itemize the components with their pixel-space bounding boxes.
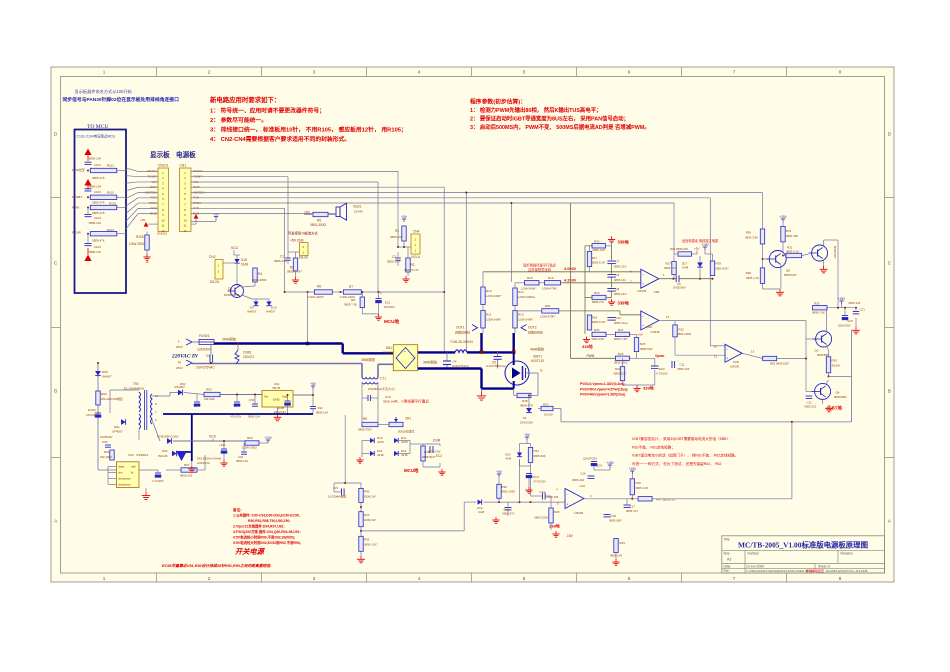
wire CN1 pin9 run — [191, 213, 331, 215]
svg-text:C18: C18 — [611, 514, 617, 518]
wire L to fuse — [192, 341, 199, 343]
svg-text:8550/EBC: 8550/EBC — [834, 395, 847, 399]
svg-text:IGBT地: IGBT地 — [827, 405, 842, 412]
capacitor EC90 — [95, 412, 101, 414]
wire CN101-box link 3 — [126, 182, 138, 183]
svg-text:+5V: +5V — [213, 212, 220, 216]
svg-text:4: 4 — [418, 576, 421, 581]
svg-text:D94: D94 — [162, 449, 168, 453]
wire sync line B — [561, 282, 641, 284]
svg-text:U2D: U2D — [733, 360, 740, 364]
svg-text:EXAMPLES\SPT101~112.DDB: EXAMPLES\SPT101~112.DDB — [826, 569, 868, 573]
svg-text:0805-221*: 0805-221* — [614, 292, 628, 296]
op-amp U2A — [565, 489, 584, 509]
svg-text:1: 1 — [103, 70, 106, 75]
svg-text:BYR20/BYV26C: BYR20/BYV26C — [157, 435, 180, 439]
svg-text:0805-300Ω: 0805-300Ω — [310, 223, 326, 227]
wire CN101 pin 8 — [138, 207, 158, 209]
wire CN101-box link 8 — [126, 208, 138, 221]
resistor R32 — [786, 253, 802, 257]
capacitor EC91 — [194, 401, 200, 403]
svg-text:~: ~ — [396, 357, 398, 361]
svg-text:0805-47K: 0805-47K — [92, 201, 105, 205]
svg-text:vdd: vdd — [131, 465, 136, 469]
svg-text:U90: U90 — [128, 453, 134, 457]
capacitor EC93 — [221, 448, 227, 450]
svg-text:1/2W-240K*: 1/2W-240K* — [486, 294, 502, 298]
thick stub OUT2 — [513, 333, 515, 352]
wire EC1 ground — [378, 303, 380, 314]
capacitor EC3 — [526, 473, 532, 475]
connector CN4 — [411, 234, 420, 254]
svg-text:8050/SOT: 8050/SOT — [833, 246, 837, 259]
transistor Q2 top — [812, 245, 828, 261]
svg-text:2W-100K: 2W-100K — [100, 455, 112, 459]
resistor R25 — [634, 338, 638, 352]
svg-text:R8: R8 — [351, 298, 355, 302]
svg-text:R1: R1 — [395, 229, 399, 233]
svg-text:0805-51K*: 0805-51K* — [422, 455, 437, 459]
capacitor C93 — [252, 403, 258, 405]
svg-text:R9: R9 — [363, 417, 367, 421]
wire diodes top — [252, 298, 269, 300]
svg-text:10/1W: 10/1W — [544, 413, 553, 417]
thick wire DB1 output — [418, 351, 455, 353]
resistor R103 — [90, 205, 117, 209]
svg-text:0805-104: 0805-104 — [572, 478, 584, 482]
svg-text:EC90: EC90 — [88, 408, 96, 412]
wire CN101 pin 2 — [138, 176, 158, 178]
+18V drive node — [841, 301, 843, 304]
wire CN1 pin2 run — [191, 176, 288, 178]
wire cap rail — [611, 246, 613, 260]
svg-text:R43: R43 — [620, 541, 626, 545]
wire BUZ1 down — [331, 213, 336, 215]
capacitor C4 filter — [443, 360, 451, 362]
svg-text:R16: R16 — [548, 276, 554, 280]
wire T90 primary — [110, 389, 139, 391]
+10V supply label — [259, 442, 268, 444]
svg-text:drn: drn — [119, 471, 123, 475]
svg-text:R2: R2 — [411, 263, 415, 267]
wire IGBTEN down to R29 — [762, 193, 764, 229]
svg-text:0805-220K: 0805-220K — [534, 516, 548, 520]
capacitor EC96 — [285, 400, 291, 402]
resistor R47 — [638, 497, 652, 501]
wire 7805 out — [293, 394, 313, 396]
wire CN3 bottom — [288, 251, 300, 253]
wires CN4 — [403, 241, 405, 247]
svg-text:C101: C101 — [94, 163, 101, 167]
capacitor C8 — [607, 288, 616, 290]
svg-text:同步信号与PAN30针脚02位在显示板处用排线角连接口: 同步信号与PAN30针脚02位在显示板处用排线角连接口 — [63, 96, 180, 103]
resistor R43 — [614, 539, 618, 553]
svg-text:100K/1W: 100K/1W — [364, 518, 376, 522]
capacitor C7 — [607, 260, 616, 262]
svg-text:+: + — [642, 324, 644, 328]
ground U90 — [145, 488, 147, 492]
connector CN101 — [158, 168, 169, 232]
svg-text:R、C两线要平行靠近: R、C两线要平行靠近 — [395, 399, 429, 404]
svg-text:820K/1W: 820K/1W — [364, 495, 376, 499]
svg-text:0805-114: 0805-114 — [664, 266, 676, 270]
svg-text:+: + — [642, 282, 644, 286]
wire D15 to Q1 — [236, 264, 238, 286]
svg-text:2: 2 — [208, 70, 211, 75]
svg-text:C7: C7 — [616, 260, 620, 264]
wire R105 top — [146, 232, 148, 236]
svg-text:7: 7 — [733, 70, 736, 75]
ground diode bridge — [361, 454, 363, 458]
svg-text:4148: 4148 — [505, 457, 512, 461]
svg-text:2： 要保证启动时IGBT导通宽度为8US左右， 采用PAN: 2： 要保证启动时IGBT导通宽度为8US左右， 采用PAN信号启动； — [470, 115, 629, 123]
svg-text:10/250#W或插: 10/250#W或插 — [328, 495, 347, 499]
wire R103 — [117, 207, 126, 209]
svg-text:Q1: Q1 — [228, 287, 232, 291]
svg-text:R38: R38 — [522, 399, 528, 403]
svg-text:R41: R41 — [364, 513, 370, 517]
svg-text:4148: 4148 — [377, 440, 384, 444]
svg-text:5X0.5W(Vd≈0.5A4): 5X0.5W(Vd≈0.5A4) — [197, 457, 221, 461]
buzzer BUZ1 — [336, 207, 340, 217]
capacitor C17 — [624, 504, 631, 506]
svg-text:R14: R14 — [518, 290, 524, 294]
wire U2A out — [585, 498, 639, 500]
svg-text:R42: R42 — [594, 240, 600, 244]
svg-text:13-Jun-2005: 13-Jun-2005 — [746, 565, 764, 569]
OUT1 terminal — [472, 325, 478, 331]
svg-text:30/1W: 30/1W — [832, 364, 841, 368]
svg-text:R45: R45 — [554, 510, 560, 514]
svg-text:0805-4.7K: 0805-4.7K — [520, 404, 533, 408]
resistor R12 — [481, 287, 485, 305]
svg-text:8050/SOT: 8050/SOT — [784, 273, 797, 277]
svg-text:3MM铜铂: 3MM铜铂 — [423, 360, 438, 365]
svg-text:R47 0805-5.1K: R47 0805-5.1K — [656, 497, 676, 501]
resistor R28 — [710, 261, 714, 276]
svg-text:+5V: +5V — [401, 215, 408, 219]
svg-text:LM339: LM339 — [637, 289, 647, 293]
ground R105 — [146, 250, 148, 254]
svg-text:0805-104: 0805-104 — [236, 459, 248, 463]
svg-text:+18V: +18V — [606, 461, 614, 465]
capacitor C94 — [241, 451, 247, 453]
power arrow group2 — [84, 179, 91, 186]
svg-text:339地: 339地 — [643, 385, 654, 391]
svg-text:8: 8 — [839, 576, 842, 581]
resistor R20 — [592, 332, 606, 336]
svg-text:UF4007: UF4007 — [112, 430, 123, 434]
svg-text:R97: R97 — [184, 463, 190, 467]
svg-text:R15: R15 — [527, 276, 533, 280]
svg-text:0805-104: 0805-104 — [316, 411, 328, 415]
wires U90 left pins — [108, 466, 117, 468]
resistor R19 — [592, 295, 606, 299]
capacitor C91 — [310, 406, 316, 408]
svg-text:FCUR: FCUR — [72, 230, 81, 234]
svg-text:1:公共器件 :C90-C93,D90-D93,EC90-E: 1:公共器件 :C90-C93,D90-D93,EC90-EC95, — [233, 513, 300, 518]
svg-text:C104: C104 — [94, 245, 101, 249]
ground EC3 — [528, 478, 530, 487]
svg-text:B: B — [54, 389, 57, 394]
svg-text:0805-471: 0805-471 — [626, 509, 638, 513]
wire CT1 secondary down — [361, 383, 363, 397]
svg-text:8: 8 — [839, 70, 842, 75]
ground 339 mid — [611, 299, 613, 302]
svg-text:Q4: Q4 — [836, 391, 840, 395]
wire U2B out — [659, 278, 676, 280]
resistor R31 — [781, 226, 785, 242]
wire CN101 pin 3 — [138, 181, 158, 183]
svg-text:11: 11 — [161, 224, 164, 228]
svg-text:0805-104: 0805-104 — [383, 400, 396, 404]
wire PWM from bus — [570, 203, 572, 358]
svg-text:EC4: EC4 — [597, 464, 603, 468]
svg-text:R18: R18 — [592, 316, 598, 320]
resistor R45 — [549, 508, 553, 523]
resistor R62 — [763, 356, 777, 360]
wire sync line A — [483, 271, 641, 273]
diode D14 — [370, 451, 374, 456]
wire R102 — [117, 196, 126, 198]
svg-text:0805-30K: 0805-30K — [534, 454, 546, 458]
svg-text:-18V: -18V — [566, 534, 574, 538]
wire sync tap to mains — [307, 292, 309, 344]
wire CN1 pin5 run — [191, 192, 763, 194]
thick rail coil to OUT1 — [467, 351, 482, 353]
wire CN1 pin6 run — [191, 197, 710, 199]
svg-text:LM431/3A: LM431/3A — [197, 461, 210, 465]
resistor R44 — [528, 447, 532, 462]
svg-text:C11: C11 — [680, 363, 685, 367]
wire CN1 pin1 run — [191, 170, 398, 172]
wire CT1 to R9 — [361, 410, 363, 425]
svg-text:2UF/275VAC: 2UF/275VAC — [196, 366, 215, 370]
svg-text:4148: 4148 — [682, 266, 689, 270]
resistor R15 — [525, 281, 540, 285]
diode D92 snubber — [178, 390, 183, 396]
svg-text:1/2W-240K*: 1/2W-240K* — [518, 318, 534, 322]
wire TMAIN down to CN4 — [397, 171, 399, 247]
svg-text:Date:: Date: — [724, 565, 732, 569]
svg-text:C103: C103 — [94, 216, 101, 220]
resistor R104 — [90, 232, 117, 236]
inner frame — [61, 77, 885, 574]
wire R29 to Q8 — [762, 244, 764, 268]
svg-text:L: L — [178, 340, 180, 344]
svg-text:Sheet of: Sheet of — [818, 565, 830, 569]
svg-text:CN101: CN101 — [158, 164, 168, 168]
svg-text:0805-101: 0805-101 — [614, 278, 626, 282]
resistor R35 — [826, 357, 830, 373]
transistor Q1 — [231, 285, 244, 298]
wire PWM down to R26 node — [673, 203, 675, 254]
svg-text:R37: R37 — [543, 403, 549, 407]
title block — [722, 536, 885, 573]
svg-text:RS2006: RS2006 — [383, 351, 394, 355]
svg-text:GND: GND — [273, 398, 281, 402]
svg-text:1/2W-240K*: 1/2W-240K* — [521, 287, 537, 291]
resistor R41 — [359, 512, 363, 527]
svg-text:0805-221*: 0805-221* — [614, 265, 628, 269]
wire PWM down to sync node — [510, 203, 512, 282]
resistor R37 — [541, 406, 553, 410]
svg-text:220U/25V: 220U/25V — [838, 324, 851, 328]
resistor R105 — [145, 235, 149, 250]
svg-text:4148: 4148 — [377, 453, 384, 457]
svg-text:+5V: +5V — [304, 211, 311, 215]
svg-text:R7: R7 — [349, 285, 353, 289]
wire CN1 pin4 run — [191, 186, 444, 188]
resistor R5 — [313, 212, 328, 216]
svg-text:0805-106: 0805-106 — [274, 259, 287, 263]
wire vertical mains sense stub — [465, 193, 467, 352]
wires CUR cluster — [410, 443, 423, 445]
svg-text:3:FSDQ200方案 器件:C94,Q90,R94-96,: 3:FSDQ200方案 器件:C94,Q90,R94-96,U91; — [233, 529, 301, 534]
+5V supply label — [312, 386, 314, 389]
resistor R101 — [90, 168, 117, 172]
transistor Q8 — [769, 251, 786, 268]
svg-text:47UF/25V: 47UF/25V — [534, 480, 547, 484]
svg-text:0805-27K: 0805-27K — [592, 300, 604, 304]
wire CN101 pin 9 — [138, 213, 158, 215]
svg-text:47U/25V: 47U/25V — [230, 415, 241, 419]
+5V at CN101 pin10 — [144, 222, 149, 227]
ground CUR — [439, 463, 441, 467]
resistor R1 — [402, 226, 406, 241]
thick rail OUT1 to IGBT — [482, 351, 514, 353]
wire TIGBT down to CN3 — [287, 177, 289, 252]
svg-text:新电路应用时要求如下：: 新电路应用时要求如下： — [210, 95, 280, 104]
svg-text:0805-750*: 0805-750* — [358, 428, 373, 432]
svg-text:G: G — [540, 369, 543, 373]
wire sync line C — [559, 310, 620, 312]
svg-text:R29: R29 — [716, 262, 722, 266]
svg-text:250V: 250V — [176, 366, 183, 370]
diode D91 — [121, 419, 126, 425]
svg-text:H20T120: H20T120 — [531, 359, 544, 363]
capacitor C6 — [675, 275, 677, 282]
IGBT gate wire — [526, 372, 539, 374]
svg-text:0805-101µ: 0805-101µ — [614, 321, 628, 325]
svg-text:CN4: CN4 — [413, 230, 420, 234]
svg-text:+18V: +18V — [701, 243, 709, 247]
svg-text:VCC: VCC — [231, 246, 239, 250]
svg-text:C15: C15 — [333, 486, 339, 490]
svg-text:CN2: CN2 — [209, 255, 216, 259]
wire R5 to buzzer — [328, 214, 336, 216]
svg-text:IGBT兼容性设计， 采用33(IGBT需要驱动电流大的话（: IGBT兼容性设计， 采用33(IGBT需要驱动电流大的话（5BB）， — [632, 436, 734, 441]
svg-text:R62不装， R61走线短路；: R62不装， R61走线短路； — [632, 444, 675, 449]
svg-text:EC2: EC2 — [436, 454, 442, 458]
svg-text:0805-104: 0805-104 — [89, 157, 102, 161]
wire CN101 pin 5 — [138, 192, 158, 194]
svg-text:CUR: CUR — [433, 439, 441, 443]
wire main sense vertical — [344, 415, 346, 483]
svg-text:D15: D15 — [241, 258, 247, 262]
svg-text:0805-12K*: 0805-12K* — [364, 543, 378, 547]
svg-text:R42: R42 — [364, 538, 370, 542]
svg-text:C13: C13 — [540, 490, 546, 494]
wire to 7805 — [220, 394, 262, 396]
svg-text:7: 7 — [733, 576, 736, 581]
svg-text:−: − — [726, 348, 728, 352]
wire U2D out — [743, 353, 763, 358]
resistor R27 — [672, 262, 676, 275]
svg-text:6: 6 — [628, 576, 631, 581]
resistor R26 — [678, 252, 692, 256]
svg-text:IGBT1: IGBT1 — [533, 355, 542, 359]
+18V label comparator — [704, 247, 706, 250]
svg-text:R6: R6 — [317, 285, 321, 289]
svg-text:14: 14 — [666, 315, 670, 319]
svg-text:4MM铜铂: 4MM铜铂 — [530, 347, 545, 352]
resistor R92 — [204, 392, 220, 396]
svg-text:R25: R25 — [640, 342, 646, 346]
svg-text:0805-51K*: 0805-51K* — [640, 347, 654, 351]
capacitor C103 — [85, 214, 92, 216]
transistor Q4 pnp — [815, 383, 831, 399]
resistor R33 — [813, 306, 828, 310]
svg-text:Q3: Q3 — [815, 349, 819, 353]
svg-text:+5V CN3: +5V CN3 — [290, 239, 304, 243]
svg-text:Vin: Vin — [264, 395, 269, 399]
resistor R38 gate — [517, 393, 531, 397]
MCU interface box — [75, 130, 127, 294]
diode D12 — [394, 451, 398, 456]
resistor R14 — [513, 288, 517, 306]
svg-text:R92: R92 — [206, 388, 212, 392]
svg-text:9148: 9148 — [241, 263, 248, 267]
svg-text:程序参数(初步估算)：: 程序参数(初步估算)： — [469, 98, 526, 106]
capacitor C13 — [542, 493, 544, 500]
resistor R46 — [630, 479, 634, 495]
svg-text:2W-22Ω(5%电阻): 2W-22Ω(5%电阻) — [101, 397, 123, 401]
svg-text:−: − — [642, 273, 644, 277]
svg-text:R26 0805-2K0: R26 0805-2K0 — [670, 247, 688, 251]
op-amp U2B — [641, 269, 659, 288]
svg-text:3MM铜铂: 3MM铜铂 — [361, 357, 376, 362]
resistor R42 — [592, 244, 606, 248]
svg-text:0805-104: 0805-104 — [248, 415, 260, 419]
capacitor C12 — [806, 395, 813, 397]
svg-text:R23: R23 — [618, 352, 624, 356]
svg-text:MC/TB-2005_V1.00标准版电源板原理图: MC/TB-2005_V1.00标准版电源板原理图 — [738, 541, 868, 550]
wires pwm filter — [637, 357, 655, 359]
svg-text:R44: R44 — [534, 449, 540, 453]
svg-text:-: - — [404, 365, 405, 369]
svg-text:13: 13 — [751, 350, 755, 354]
wire CN101 pin 1 — [138, 170, 158, 172]
svg-text:0805-13K2: 0805-13K2 — [614, 361, 628, 365]
svg-text:整机串联配置: 整机串联配置 — [806, 568, 824, 573]
ground R42b — [360, 551, 362, 556]
wire R40 R41 — [360, 502, 362, 511]
svg-text:可统一──种方式， 但为了测试， 还是先保留R61、 R62: 可统一──种方式， 但为了测试， 还是先保留R61、 R62 — [632, 461, 722, 466]
svg-text:R33: R33 — [814, 302, 820, 306]
svg-text:LM339: LM339 — [574, 511, 584, 515]
svg-text:drain: drain — [119, 465, 125, 469]
ground CN3 — [295, 271, 297, 277]
svg-text:+18V: +18V — [838, 297, 846, 301]
+5V D20 rail — [526, 437, 528, 440]
svg-text:C1: C1 — [280, 255, 284, 259]
svg-text:339地: 339地 — [618, 239, 630, 246]
junction OUT1 — [480, 350, 484, 354]
svg-text:0805-1.9K*: 0805-1.9K* — [614, 337, 629, 341]
wire CN101-box link 2 — [126, 176, 138, 177]
wire comparator out node — [679, 278, 713, 280]
